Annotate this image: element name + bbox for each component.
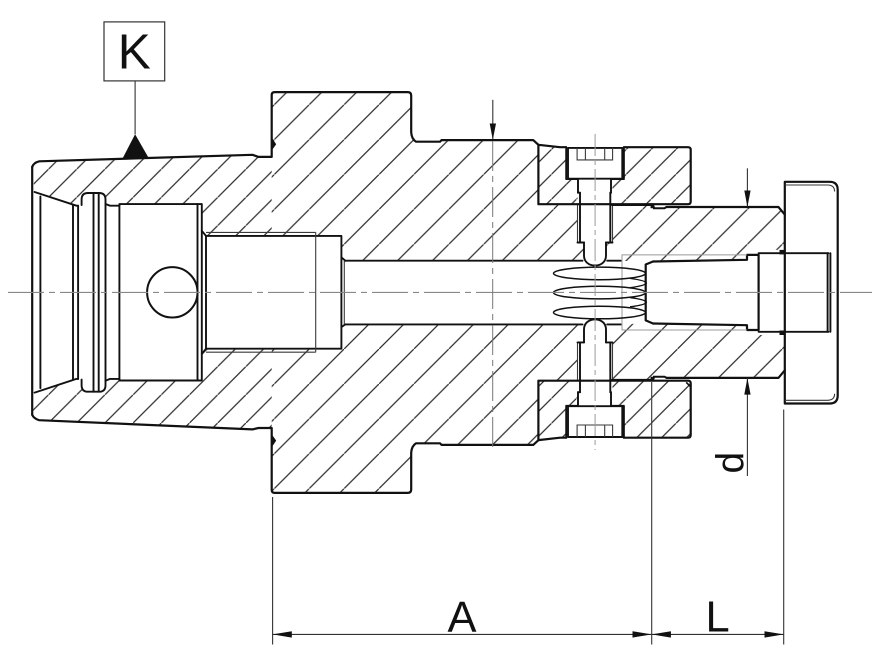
svg-text:L: L bbox=[705, 594, 729, 642]
svg-text:d: d bbox=[710, 452, 753, 474]
svg-text:A: A bbox=[447, 594, 476, 642]
svg-text:K: K bbox=[118, 24, 151, 79]
